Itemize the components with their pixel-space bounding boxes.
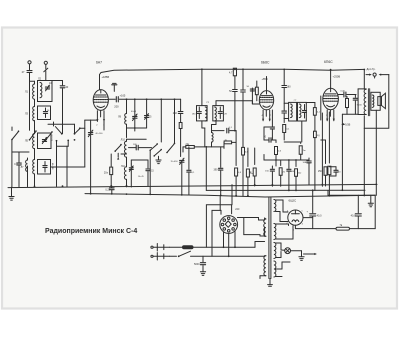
IF2 secondary box: [298, 102, 307, 121]
wire psu right rect: [328, 191, 375, 229]
wire Bplus col: [312, 190, 314, 213]
capacitor C36 40.0: [351, 195, 362, 228]
capacitor C32 5000: [353, 95, 362, 115]
output transformer T2 core: [368, 89, 369, 116]
capacitor C23 180: [282, 69, 291, 89]
coil L11: [121, 165, 127, 179]
capacitor C17 IF1b: [218, 107, 227, 119]
capacitor C22 50: [247, 86, 255, 92]
bus wire 3: [85, 193, 375, 197]
capacitor C9 200: [114, 97, 119, 109]
bus wire 1 (chassis): [8, 184, 377, 188]
transformer T3 primary w1: [264, 218, 266, 236]
wire L3-L4 joins: [34, 100, 36, 134]
caption text: [45, 228, 137, 235]
wire r16 top: [321, 139, 326, 141]
resistor R17: [346, 97, 349, 115]
wire heater mid a: [276, 224, 289, 226]
variable capacitor C10: [131, 99, 137, 128]
tube V3 6P6S: [323, 88, 339, 109]
label 6A7: [96, 61, 102, 65]
wire V3 anode: [338, 94, 343, 96]
wire sw col c: [0, 0, 1, 1]
wire det row: [284, 121, 302, 142]
svg-text:Л1: Л1: [25, 90, 29, 94]
capacitor C15 15: [146, 160, 154, 186]
capacitor C35 40.0: [306, 211, 322, 229]
arrow chassis: [304, 253, 317, 255]
resistor R1 20k: [104, 154, 113, 187]
variable capacitor C12 40+160: [88, 120, 103, 194]
wire V1 plate right: [108, 98, 115, 100]
wire socket bottom c: [234, 232, 236, 249]
grid cap V1: [112, 83, 117, 91]
wire heater bot: [276, 262, 291, 277]
wire selector to primary top: [244, 218, 265, 221]
svg-text:Доп.Гр.: Доп.Гр.: [367, 67, 376, 71]
svg-text:Л11: Л11: [121, 165, 126, 168]
wire sw col a: [56, 140, 70, 187]
transformer T3 secondary heater1: [274, 224, 276, 240]
wire V4 cathode: [303, 217, 313, 219]
capacitor C33 20: [329, 167, 341, 176]
IF1 secondary box: [213, 106, 224, 121]
capacitor C7 in L8 box: [43, 162, 53, 173]
svg-text:20к: 20к: [298, 173, 301, 175]
wire selector to primary mid: [244, 235, 265, 236]
resistor R18 cath: [328, 112, 331, 196]
ground G6: [368, 195, 373, 207]
svg-text:15+490: 15+490: [171, 161, 179, 163]
wire OT primary bottom: [358, 115, 366, 129]
resistor R15 1m: [299, 142, 306, 160]
resistor R4 22k: [183, 143, 224, 148]
wire IF1 sec down: [202, 121, 216, 147]
svg-text:1: 1: [293, 230, 294, 232]
selector loop inner: [212, 210, 221, 256]
coil L7: [21, 160, 28, 171]
label IF2 pitch marks: [294, 100, 298, 102]
capacitor C3 40: [60, 81, 69, 134]
fuse F2 7v: [336, 224, 350, 230]
speaker Gr1 cone: [381, 93, 385, 108]
svg-text:1к: 1к: [225, 139, 227, 141]
capacitor C28 150: [265, 166, 274, 186]
core ground tap: [268, 279, 273, 287]
wire L1 top: [30, 81, 35, 84]
svg-text:5: 5: [302, 211, 303, 213]
wire speaker down: [375, 110, 377, 195]
choke L12: [212, 125, 217, 147]
tube V1 pins: [96, 111, 105, 130]
wire V1 anode top: [100, 69, 202, 89]
wire avc row: [264, 155, 309, 161]
ground chassis G1: [9, 187, 14, 200]
terminal DG1: [366, 73, 376, 78]
resistor R9 diag: [313, 105, 320, 131]
wire vert 180col: [180, 99, 182, 111]
tube V4 pin labels: [287, 211, 303, 232]
coil L9: [118, 114, 127, 125]
resistor R19: [242, 147, 249, 196]
resistor R5 1k: [224, 139, 236, 148]
wire psu col c: [219, 197, 221, 211]
wire V3 top: [330, 69, 332, 89]
switch S1a contact: [11, 130, 19, 140]
resistor R7: [246, 148, 253, 196]
label -9.5V: [341, 123, 350, 126]
svg-text:+250В: +250В: [333, 75, 341, 79]
bus wire 4 psu: [295, 228, 375, 230]
output transformer T2 primary: [364, 89, 366, 114]
svg-text:2: 2: [287, 223, 288, 225]
wire mains up: [255, 242, 265, 248]
switch S1g contact: [149, 99, 161, 151]
svg-text:40,0: 40,0: [351, 215, 356, 218]
wire psu col d: [231, 185, 233, 205]
coil L2: [38, 77, 42, 97]
switch S1d contact: [48, 124, 75, 135]
transformer T3 primary w2: [264, 256, 266, 276]
transformer T3 primary stubs: [260, 227, 266, 279]
coil L5: [25, 134, 35, 149]
svg-text:-9,5В: -9,5В: [344, 123, 350, 126]
output transformer T2 secondary: [372, 95, 374, 107]
svg-text:6Ц5С: 6Ц5С: [289, 199, 298, 203]
resistor R14 20k: [295, 160, 302, 191]
coil L4 box: [38, 106, 51, 120]
terminal DG2: [379, 74, 389, 76]
ground G5: [299, 257, 304, 261]
capacitor C4 in L4 box: [43, 108, 50, 118]
selector key diamond: [225, 221, 231, 227]
label +185V: [102, 75, 110, 79]
capacitor C8 0.25 on bus: [105, 186, 114, 194]
wire lamp a: [276, 243, 285, 250]
wire socket bottom b: [228, 233, 230, 257]
resistor R6: [235, 131, 242, 197]
wire bus1 end drop: [375, 184, 377, 186]
label 6P6S: [324, 60, 333, 64]
svg-text:390: 390: [214, 169, 219, 172]
capacitor C25 IF2b: [302, 105, 307, 119]
wire HV bottom: [276, 212, 288, 222]
speaker Gr1 coil box: [378, 97, 382, 106]
transformer T3 secondary heater2: [274, 243, 276, 259]
svg-text:+165: +165: [120, 93, 126, 97]
switch S1c contact: [45, 131, 53, 141]
wire left col 1: [11, 140, 13, 188]
resistor R10: [283, 118, 290, 140]
capacitor C24 IF2a: [282, 103, 289, 118]
dot bus j1: [234, 69, 236, 71]
wire lamp b: [276, 252, 282, 258]
selector socket S2: [220, 216, 238, 234]
wire HV top: [276, 200, 289, 212]
label +250V: [333, 75, 341, 79]
wire sw g down: [149, 150, 151, 194]
switch SA1: [170, 251, 265, 257]
resistor R13 20: [279, 160, 286, 186]
capacitor C19 0.1: [212, 127, 237, 133]
tube V2 pins: [262, 110, 273, 121]
wire L8 down: [28, 158, 35, 187]
svg-text:40,0: 40,0: [317, 215, 322, 218]
selector pins: [221, 217, 236, 232]
wire V4 bottom: [294, 225, 296, 228]
svg-text:250: 250: [173, 112, 178, 115]
wire IF2 to V3: [306, 96, 321, 120]
wire 22k left: [182, 147, 184, 152]
wire L11 down: [126, 179, 128, 187]
wire sw col b: [66, 146, 68, 186]
svg-text:200: 200: [114, 105, 119, 109]
svg-text:+185В: +185В: [102, 75, 110, 79]
coil L8 box: [38, 160, 51, 175]
transformer T3 core: [269, 198, 271, 279]
svg-text:220: 220: [235, 208, 240, 211]
wire C23 down: [283, 88, 285, 110]
speaker Gr1 frame: [371, 92, 380, 110]
trimmer C2 in box: [45, 82, 52, 91]
coil L1: [25, 84, 35, 99]
IF2 primary box: [289, 102, 297, 121]
IF2 coil La: [291, 104, 293, 118]
wire IF1 to V2 grid: [216, 101, 252, 106]
trimmer C5 in L6 box: [42, 133, 53, 143]
svg-text:6А7: 6А7: [96, 61, 102, 65]
wire selector right loop: [237, 218, 243, 235]
wire lamp right: [291, 251, 302, 257]
transformer T3 secondary heater3: [274, 261, 276, 277]
wire L5 down: [34, 149, 36, 160]
lamp HL1: [285, 248, 291, 254]
wire speaker return: [364, 75, 389, 129]
svg-text:180: 180: [287, 86, 292, 89]
coil L2 box: [38, 81, 53, 102]
IF1 primary box: [197, 106, 208, 121]
wire V3 col a: [321, 113, 323, 186]
wire IF1 top feed: [201, 68, 203, 105]
wire osc net: [121, 154, 148, 164]
capacitor C13 180: [129, 144, 152, 150]
selector loop outer: [206, 205, 231, 247]
resistor R8 4.7: [229, 68, 237, 88]
label Dop.Gr: [367, 67, 376, 71]
fuse F1: [170, 246, 256, 249]
wire OT primary top: [358, 69, 366, 115]
potentiometer R3 15+490: [171, 158, 185, 195]
svg-text:Л5: Л5: [25, 139, 29, 143]
wire left col 2: [12, 152, 29, 158]
wire field coil col: [363, 128, 365, 195]
label 6B8S: [261, 61, 270, 65]
resistor R12 3k: [249, 148, 256, 186]
svg-text:Радиоприемник Минск С-4: Радиоприемник Минск С-4: [45, 228, 137, 235]
trimmer C14 10+45: [129, 164, 144, 187]
tube V1 6A7: [93, 90, 108, 111]
IF2 coil Lb: [299, 104, 301, 118]
wire V2 top: [266, 77, 268, 91]
switch S1b contact: [29, 130, 37, 140]
capacitor C29 500: [287, 160, 295, 191]
capacitor C37 0.1 det: [187, 147, 195, 195]
tube V4 6Ts5S: [288, 210, 303, 225]
wire V2 left net: [252, 92, 259, 104]
resistor R20: [314, 131, 321, 190]
capacitor C26: [270, 110, 274, 140]
antenna terminal A1: [28, 61, 31, 70]
wire antenna down: [29, 73, 31, 130]
tube V3 pins: [326, 110, 335, 121]
wire heater mid b: [276, 226, 294, 239]
svg-text:40+3: 40+3: [131, 111, 137, 113]
label 6Ts5S: [289, 199, 298, 203]
tube V2 6B8S: [259, 91, 273, 110]
IF1 coil Lb: [215, 107, 217, 121]
wire top link: [46, 80, 63, 82]
wire earth down: [45, 71, 47, 81]
capacitor C30 10V: [303, 158, 312, 185]
svg-text:6П6С: 6П6С: [324, 60, 333, 64]
earth terminal A2: [44, 61, 48, 72]
svg-text:40+160: 40+160: [95, 133, 103, 135]
capacitor C16 IF1a: [192, 107, 201, 119]
wire L9 down: [126, 124, 128, 137]
svg-text:40+140: 40+140: [51, 133, 53, 141]
capacitor C18 250: [173, 112, 183, 123]
coil L10: [121, 139, 127, 158]
svg-text:1м: 1м: [303, 150, 306, 152]
svg-text:10+45: 10+45: [138, 176, 145, 178]
ground G3: [156, 156, 161, 163]
wire V3 col b: [342, 114, 358, 190]
label +85V: [262, 77, 268, 81]
wire osc col: [126, 99, 128, 113]
svg-text:4: 4: [302, 224, 303, 226]
wire v2 cath col: [264, 127, 272, 140]
svg-text:40+140: 40+140: [51, 163, 53, 169]
label 220: [235, 208, 240, 211]
resistor R2 small: [179, 123, 182, 157]
coil L3: [25, 107, 35, 121]
capacitor C31 0.05: [341, 91, 357, 98]
capacitor C21 50: [229, 90, 237, 132]
svg-text:10В: 10В: [303, 162, 307, 164]
wire top bus B+: [202, 69, 364, 70]
resistor R21: [255, 81, 258, 101]
switch S1f contact: [114, 144, 121, 160]
svg-text:5000: 5000: [194, 263, 200, 266]
capacitor C38: [241, 68, 246, 147]
coil L6 box: [38, 133, 52, 149]
bus wire 2: [205, 146, 365, 191]
wire V1 pin to C12: [91, 119, 98, 121]
wire socket bottom a: [223, 232, 225, 248]
trimmer C11: [145, 99, 153, 128]
svg-text:3: 3: [287, 211, 288, 213]
resistor R16 250: [318, 140, 327, 186]
transformer T3 secondary HV: [274, 200, 276, 212]
wire osc bottom join: [127, 127, 147, 131]
wire switch row: [12, 122, 54, 131]
ground G4: [200, 272, 205, 276]
plug X1 prongs: [153, 244, 169, 261]
svg-text:0,25: 0,25: [105, 188, 110, 191]
switch S1h contact: [153, 99, 175, 156]
capacitor C34 5000: [194, 256, 206, 272]
svg-text:Л10: Л10: [121, 139, 126, 142]
capacitor C6: [14, 158, 21, 187]
capacitor C27 50: [264, 137, 277, 143]
wire L10 down: [127, 139, 147, 167]
svg-text:С: С: [14, 163, 16, 166]
switch S1e contact: [74, 127, 85, 140]
resistor R11: [275, 140, 282, 166]
wire avc to coils: [51, 120, 91, 167]
capacitor C1 ant: [22, 70, 32, 74]
label +165: [120, 93, 126, 97]
svg-text:Л3: Л3: [25, 112, 29, 116]
plug X1 terminals: [151, 246, 153, 257]
label IF1 pitch marks: [206, 102, 210, 104]
capacitor C20 390: [214, 147, 223, 196]
svg-text:6Б8С: 6Б8С: [261, 61, 270, 65]
IF1 coil La: [205, 107, 207, 121]
coil L8: [33, 160, 35, 174]
wire after C9: [119, 98, 180, 100]
